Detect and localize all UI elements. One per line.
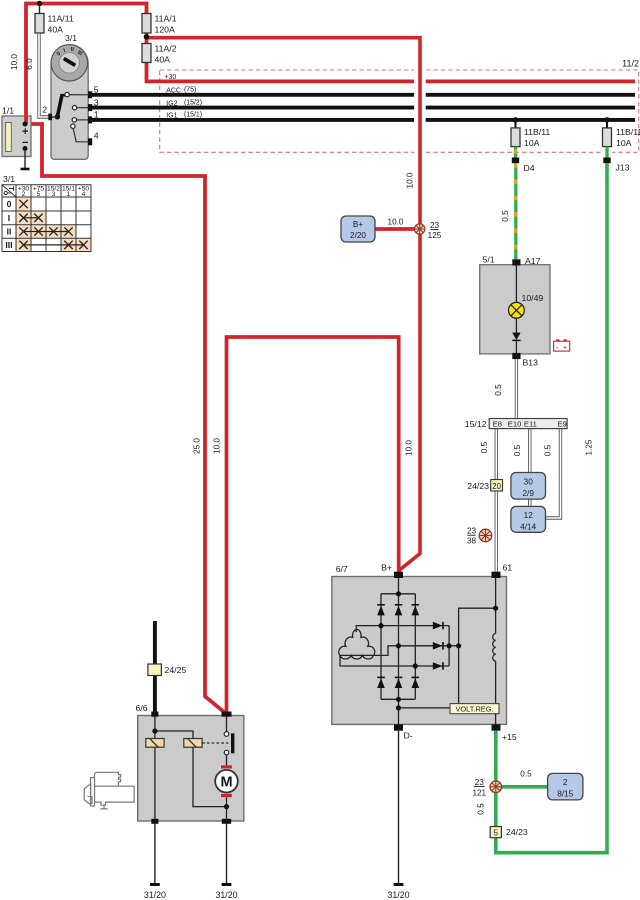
svg-text:23: 23 — [475, 778, 485, 787]
svg-text:(15/2): (15/2) — [184, 100, 202, 107]
svg-text:1.25: 1.25 — [585, 439, 594, 455]
svg-text:61: 61 — [503, 562, 513, 572]
pin D- alternator — [394, 724, 413, 740]
wire battery positive feed to top bus and fuses — [26, 4, 147, 125]
ground starter right 31/20 — [215, 824, 237, 900]
svg-text:D-: D- — [404, 731, 413, 741]
wire label 10.0 main vertical — [405, 172, 414, 188]
terminal B+ 2/20 — [341, 216, 375, 242]
node IG2 (15/2) rail label — [166, 100, 202, 108]
lamp 10/49 charge warning — [509, 293, 544, 318]
wire stub fuse 11A/1 to 11A/2 — [145, 35, 149, 44]
ignition switch 3/1 body — [51, 33, 88, 160]
fuse 11A/2 40A — [142, 44, 177, 65]
svg-text:0.5: 0.5 — [477, 803, 486, 815]
connector 24/25 — [148, 664, 187, 676]
svg-text:3: 3 — [94, 97, 99, 107]
svg-text:5: 5 — [37, 191, 41, 198]
svg-text:10.0: 10.0 — [388, 218, 404, 227]
svg-text:-: - — [556, 344, 558, 351]
svg-text:31/20: 31/20 — [215, 890, 237, 900]
svg-text:II: II — [7, 227, 12, 237]
splice 23/38 — [467, 527, 492, 546]
ignition key cylinder — [51, 45, 87, 81]
motor M starter — [215, 765, 238, 797]
svg-text:3: 3 — [52, 191, 56, 198]
svg-text:(15/1): (15/1) — [184, 111, 202, 118]
wire label 6.0 — [25, 58, 34, 70]
wire green splice to connector 5 0.5 — [477, 787, 496, 827]
svg-text:0.5: 0.5 — [520, 770, 532, 779]
junction dot top bus at fuse 11A/11 — [37, 1, 43, 7]
wire 6.0 fuse 11A/11 to ignition pin 2 — [39, 34, 49, 118]
splice 23/121 — [472, 778, 501, 798]
connector 24/23 pin 5 — [490, 827, 528, 838]
svg-text:11/2: 11/2 — [622, 59, 639, 69]
svg-text:24/23: 24/23 — [506, 827, 528, 837]
svg-text:10/49: 10/49 — [522, 293, 544, 303]
svg-text:I: I — [8, 213, 10, 223]
svg-text:(75): (75) — [184, 87, 196, 94]
wire ground cable to starter — [153, 621, 157, 712]
relay coil hold-in — [184, 739, 202, 748]
pin starter top right B+ — [222, 712, 232, 717]
svg-text:11B/11: 11B/11 — [616, 127, 640, 137]
unit 12 4/14 — [511, 506, 546, 532]
ignition contact to pin 1 — [72, 118, 88, 122]
svg-text:4: 4 — [94, 130, 99, 140]
pin +15 alternator — [492, 724, 517, 742]
connector box 11/2 dashed border — [160, 59, 639, 153]
svg-text:23: 23 — [430, 221, 440, 230]
svg-text:4: 4 — [82, 191, 86, 198]
svg-text:10A: 10A — [524, 138, 540, 148]
svg-text:24/23: 24/23 — [467, 481, 489, 491]
rectifier diode top row — [377, 605, 419, 616]
voltage regulator — [450, 704, 499, 714]
svg-text:5: 5 — [494, 829, 499, 838]
svg-text:B+: B+ — [381, 562, 392, 572]
svg-text:VOLT.REG.: VOLT.REG. — [455, 705, 493, 714]
svg-text:0.5: 0.5 — [494, 384, 503, 396]
svg-text:11A/2: 11A/2 — [155, 44, 177, 54]
wire green splice to terminal 2 8/15 0.5 — [496, 770, 548, 787]
junction dot IG1 rail to fuse D4 — [513, 117, 519, 128]
pin B+ alternator — [381, 562, 403, 578]
pin 5 ignition switch — [88, 85, 99, 99]
pin starter top left — [151, 712, 158, 717]
svg-text:0.5: 0.5 — [544, 444, 553, 456]
svg-text:0.5: 0.5 — [501, 210, 510, 222]
ignition position table 3/1 — [2, 174, 91, 252]
wire IG2 bus rail — [92, 106, 635, 110]
stator winding — [339, 629, 375, 659]
svg-text:6/7: 6/7 — [336, 564, 348, 574]
terminal 2 8/15 — [548, 773, 583, 800]
svg-text:M: M — [220, 774, 232, 790]
svg-text:B+: B+ — [353, 220, 363, 229]
svg-text:1: 1 — [94, 110, 99, 120]
svg-text:10A: 10A — [616, 138, 632, 148]
starter internal wiring — [152, 717, 229, 819]
diode in 5/1 — [512, 333, 520, 341]
wire E11 to relay 30 2/9 — [513, 429, 530, 508]
connector 24/23 pin 20 — [467, 480, 502, 492]
ignition contact to pin 4 — [71, 124, 88, 142]
pin 2 ignition switch — [42, 105, 52, 121]
wire red from fuse 11A/1 to vertical main feed — [147, 33, 421, 573]
svg-text:III: III — [5, 240, 12, 250]
svg-text:40A: 40A — [155, 55, 171, 65]
svg-text:6.0: 6.0 — [25, 58, 34, 70]
junction dot IG1 rail to fuse J13 — [604, 117, 610, 128]
svg-text:10.0: 10.0 — [10, 54, 19, 70]
rectifier diode bottom row — [377, 677, 419, 688]
starter pictogram — [84, 772, 134, 809]
svg-text:1/1: 1/1 — [2, 106, 14, 116]
alternator internal wiring — [340, 578, 496, 724]
connector D4 — [512, 158, 535, 174]
svg-text:10.0: 10.0 — [213, 438, 222, 454]
pin 3 ignition switch — [88, 97, 99, 111]
pin 4 ignition switch — [88, 130, 99, 145]
svg-text:31/20: 31/20 — [387, 890, 409, 900]
svg-text:30: 30 — [524, 477, 534, 486]
wire green +15 to splice 23/121 — [494, 731, 498, 789]
wire B13 to E10 0.5 — [494, 359, 516, 418]
ground battery — [21, 149, 30, 170]
svg-text:10.0: 10.0 — [405, 440, 414, 456]
node IG1 (15/1) rail label — [166, 111, 202, 119]
svg-text:E8: E8 — [493, 420, 502, 429]
pin B13 — [512, 353, 538, 367]
svg-text:20: 20 — [492, 482, 501, 491]
ignition switch lever — [52, 95, 67, 119]
splice 23/125 — [415, 221, 442, 240]
ignition contact to pin 5 — [65, 92, 88, 96]
pin starter bottom right — [222, 819, 231, 824]
svg-text:5: 5 — [94, 85, 99, 95]
wire label 10.0 lower — [405, 440, 414, 456]
pin 1 ignition switch — [88, 110, 99, 124]
svg-text:2: 2 — [22, 191, 26, 198]
svg-text:40A: 40A — [48, 25, 64, 35]
svg-text:38: 38 — [467, 537, 477, 546]
pin starter bottom left — [151, 819, 158, 824]
rotor field winding — [493, 634, 496, 662]
wire +30 red rail from fuse 11A/2 — [147, 63, 636, 82]
svg-text:4/14: 4/14 — [520, 522, 536, 531]
svg-text:E10: E10 — [508, 420, 522, 429]
wire alternator B+ to starter 10.0 — [227, 337, 399, 714]
svg-text:0: 0 — [7, 199, 12, 209]
svg-text:10.0: 10.0 — [405, 172, 414, 188]
relay 30 2/9 — [511, 473, 546, 500]
svg-text:23: 23 — [467, 527, 477, 536]
junction dots alternator — [378, 591, 498, 710]
ground alternator D- 31/20 — [387, 731, 409, 900]
svg-text:11B/11: 11B/11 — [524, 127, 550, 137]
svg-text:2/20: 2/20 — [350, 231, 366, 240]
svg-text:11A/1: 11A/1 — [155, 14, 177, 24]
wire crossing gap at J13 wire — [602, 150, 612, 156]
svg-text:2/9: 2/9 — [523, 489, 535, 498]
svg-text:E11: E11 — [524, 420, 537, 429]
svg-text:+15: +15 — [502, 732, 517, 742]
node ACC (75) rail label — [166, 87, 196, 95]
pin 61 alternator — [492, 562, 513, 578]
ignition contact to pin 3 — [72, 106, 88, 110]
alternator 6/7 — [332, 564, 507, 724]
wire IG1 bus rail — [92, 118, 635, 122]
svg-text:E9: E9 — [558, 420, 567, 429]
battery 1/1 — [2, 106, 31, 157]
connector J13 — [603, 158, 629, 173]
svg-text:3/1: 3/1 — [3, 174, 15, 184]
wire green-yellow D4 to A17 0.5 — [501, 163, 516, 259]
svg-text:8/15: 8/15 — [557, 790, 573, 799]
svg-text:25.0: 25.0 — [193, 438, 202, 454]
solenoid contact — [202, 732, 234, 755]
wire green fuse to J13 — [605, 147, 608, 158]
svg-text:0.5: 0.5 — [480, 441, 489, 453]
fuse 11A/11 40A — [35, 6, 74, 35]
svg-text:121: 121 — [472, 788, 486, 797]
combined instrument 5/1 — [480, 255, 550, 354]
wire label 25.0 — [193, 438, 202, 454]
fuse 11A/1 120A — [142, 14, 177, 35]
relay coil pull-in — [146, 739, 164, 748]
wire label 10.0 battery feed — [10, 54, 19, 70]
wire E8 to alternator pin 61 — [480, 429, 496, 572]
svg-text:31/20: 31/20 — [144, 890, 166, 900]
svg-text:+: + — [563, 344, 567, 351]
svg-text:6/6: 6/6 — [136, 703, 148, 713]
battery charge icon — [554, 339, 570, 351]
svg-text:5/1: 5/1 — [483, 255, 495, 265]
starter motor 6/6 — [136, 703, 244, 821]
pin A17 — [512, 256, 540, 266]
svg-text:11A/11: 11A/11 — [48, 14, 74, 24]
fuse 11B/11 10A right — [603, 127, 640, 148]
svg-text:15/12: 15/12 — [465, 419, 487, 429]
exciter diodes horizontal — [433, 622, 443, 670]
svg-text:2: 2 — [563, 778, 568, 787]
wire B+ 2/20 branch 10.0 — [375, 218, 420, 230]
svg-text:B13: B13 — [523, 357, 539, 367]
ground starter left 31/20 — [144, 824, 166, 900]
wire E9 to 12 4/14 — [544, 429, 561, 518]
svg-text:A17: A17 — [525, 256, 541, 266]
svg-text:J13: J13 — [616, 163, 630, 173]
connector 15/12 strip — [465, 419, 567, 429]
svg-text:125: 125 — [428, 231, 442, 240]
wire label 10.0 starter branch — [213, 438, 222, 454]
svg-text:12: 12 — [524, 511, 534, 520]
junction dot between fuse 11A/1 and 11A/2 — [144, 34, 150, 40]
fuse 11B/11 10A left — [511, 127, 550, 148]
node +30 rail label — [165, 74, 177, 81]
wire green-yellow fuse to D4 — [514, 147, 517, 158]
wire battery positive to starter feed 25.0 — [25, 124, 224, 714]
svg-text:0.5: 0.5 — [513, 444, 522, 456]
wire green J13 down right side 1.25 — [496, 163, 607, 853]
wire crossing gap at main feed — [414, 64, 426, 157]
svg-text:D4: D4 — [524, 163, 535, 173]
svg-text:2: 2 — [42, 105, 47, 115]
svg-text:1: 1 — [67, 191, 71, 198]
wire ACC bus rail — [92, 93, 635, 97]
svg-text:120A: 120A — [155, 25, 175, 35]
svg-text:24/25: 24/25 — [165, 665, 187, 675]
svg-text:3/1: 3/1 — [65, 33, 77, 43]
